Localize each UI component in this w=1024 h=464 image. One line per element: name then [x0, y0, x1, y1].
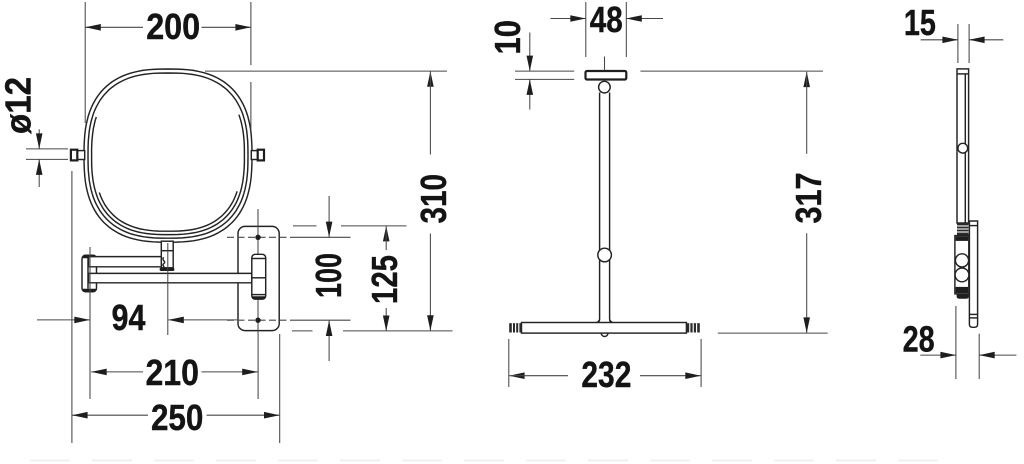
middle top cap [586, 71, 627, 80]
svg-text:15: 15 [904, 2, 936, 43]
plate vertical centerline [257, 209, 259, 334]
dim 310 arrows [427, 71, 434, 87]
middle cap centerline [604, 57, 606, 71]
middle top ball joint [599, 81, 611, 93]
right knurled end [686, 323, 699, 332]
wall pivot knuckle [252, 254, 266, 299]
dim 250 line and arrows [72, 414, 148, 416]
dim 125 arrows [383, 226, 390, 242]
side hinge block [955, 236, 969, 294]
middle mid ball joint [598, 248, 612, 262]
left knurled end [509, 323, 521, 332]
bottom screw hole [255, 318, 260, 323]
dim 250 right extension line [279, 334, 281, 443]
dim 200 left extension line [84, 2, 86, 123]
dim 28 line and arrows [920, 354, 955, 356]
dim 100 arrows [328, 196, 330, 237]
svg-text:28: 28 [903, 319, 935, 360]
plate bottom screw centerline [227, 319, 292, 321]
svg-text:210: 210 [145, 352, 199, 393]
dim 10 arrows [529, 33, 531, 71]
mirror outer contour [84, 69, 252, 242]
right pivot knob [251, 150, 264, 161]
faint footer artifact [30, 460, 950, 462]
dim o12 arrows [38, 129, 40, 148]
side pivot knob [958, 143, 968, 153]
mirror stem [160, 241, 175, 271]
svg-text:10: 10 [487, 20, 528, 55]
middle bottom reference line [718, 332, 828, 334]
side knurl band [957, 223, 969, 236]
mirror inner contour [88, 73, 248, 238]
left pivot knob [71, 150, 85, 161]
side plate [969, 221, 977, 327]
dim 210 line and arrows [91, 371, 143, 373]
dim 210 left extension line [89, 247, 91, 399]
top screw hole [255, 235, 260, 240]
mirror centerline [167, 243, 169, 335]
bar bottom center bump [601, 333, 608, 336]
dim 48 line and arrows [550, 18, 585, 20]
svg-text:310: 310 [413, 174, 454, 224]
dim 232 left extension line [508, 339, 510, 387]
dim 28 right extension line [978, 334, 980, 379]
svg-text:125: 125 [364, 255, 405, 304]
svg-text:250: 250 [151, 397, 204, 438]
plate top screw centerline [227, 236, 292, 238]
side bottom tab [957, 294, 969, 299]
dim 317 arrows [803, 72, 810, 88]
plate bottom reference line [292, 330, 313, 332]
plate top reference line [293, 225, 317, 227]
dim 94 line and arrows [37, 319, 90, 321]
svg-text:94: 94 [112, 297, 146, 338]
mirror rim line 4 [99, 191, 237, 231]
dim 250 left extension line [71, 171, 73, 443]
dim 200 right extension line [250, 2, 252, 65]
dim 48 left extension line [585, 2, 587, 57]
dim 15 extension lines [957, 24, 959, 63]
dim 232 line and arrows [509, 372, 524, 379]
wall plate [238, 226, 279, 330]
dim 232 right extension line [700, 339, 702, 387]
dim o12 boundary lines [26, 148, 68, 150]
bottom screw line extension [292, 319, 351, 321]
left pivot block [82, 255, 97, 292]
mirror top reference line [205, 70, 447, 72]
dim 210 right extension line [257, 334, 259, 399]
svg-text:200: 200 [146, 6, 200, 47]
middle bottom bar [522, 323, 687, 334]
dim 28 left extension line [955, 306, 957, 379]
lower arm [89, 273, 256, 283]
svg-text:48: 48 [590, 0, 623, 40]
upper arm [89, 257, 165, 268]
dim 10 boundary lines [515, 70, 574, 72]
svg-text:ø12: ø12 [0, 77, 39, 134]
svg-text:232: 232 [581, 354, 631, 395]
svg-text:100: 100 [308, 253, 349, 298]
middle stem [597, 93, 613, 323]
svg-text:317: 317 [788, 173, 829, 224]
side hinge ball lower [955, 268, 969, 282]
dim 48 right extension line [625, 2, 627, 57]
middle top reference line [640, 70, 823, 72]
dim 200 line and arrows [85, 26, 143, 28]
side bar [957, 69, 969, 223]
dim 15 line and arrows [921, 39, 958, 41]
mirror rim line 3 [92, 115, 245, 235]
side hinge ball upper [955, 254, 968, 267]
top screw line extension [292, 236, 351, 238]
